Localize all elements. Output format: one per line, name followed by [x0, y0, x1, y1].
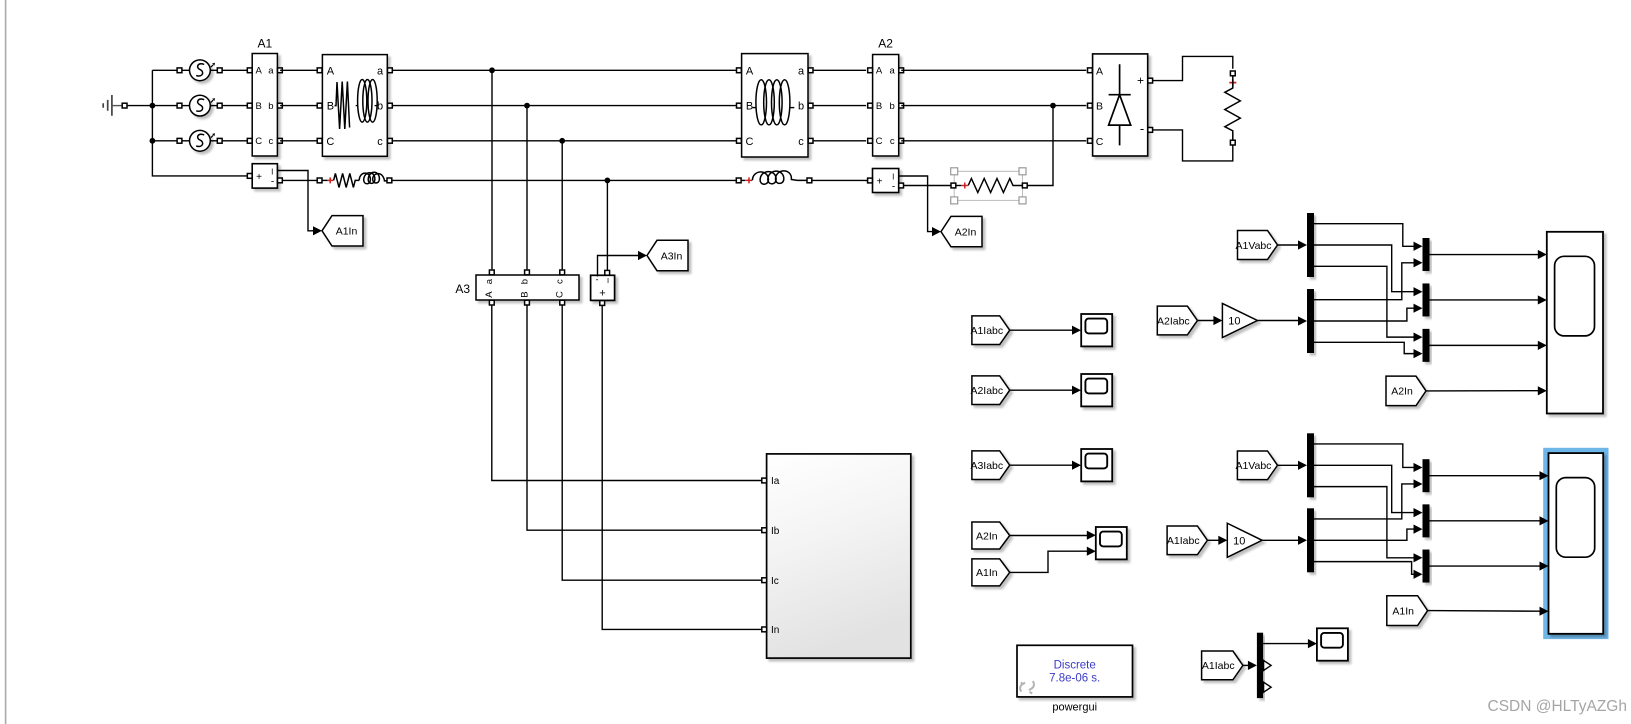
- svg-text:-: -: [271, 177, 274, 188]
- from tag A2Iabc: [972, 376, 1010, 405]
- from tag A1In g2: [1387, 596, 1428, 626]
- wire D1.2 to M2.1: [1314, 245, 1414, 292]
- from tag A2In: [972, 522, 1010, 549]
- svg-text:a: a: [268, 66, 274, 77]
- wire A2In to scope1: [1426, 390, 1538, 392]
- from tag A2Iabc g1: [1157, 306, 1197, 335]
- canvas left border: [5, 0, 7, 724]
- svg-text:c: c: [555, 279, 566, 284]
- wire L1 outputs to A2: [813, 69, 866, 71]
- wire A1Iabc to scope: [1010, 329, 1073, 331]
- wire A1Vabc to demux1: [1278, 244, 1299, 246]
- svg-text:A2Iabc: A2Iabc: [970, 385, 1003, 397]
- selection frame around R2: [954, 171, 1022, 200]
- load resistor Rload: [1230, 71, 1235, 76]
- wire A1Vabc to demux3: [1278, 464, 1299, 466]
- wire A1In to scope S6: [1010, 551, 1087, 572]
- transformer primary winding: [335, 82, 350, 130]
- mux M3: [1423, 329, 1430, 362]
- AC voltage source Vs2: [177, 103, 182, 108]
- svg-text:A1In: A1In: [336, 226, 358, 238]
- node neutral tap: [605, 178, 611, 184]
- wire M4 to scope2: [1430, 475, 1540, 477]
- neutral inductor L2: [736, 178, 741, 183]
- wire transformer.b to series inductor block: [392, 105, 736, 107]
- wire bus to Vs1: [152, 69, 177, 71]
- current measurement I1: [252, 164, 277, 188]
- svg-text:-: -: [1140, 121, 1144, 136]
- scope S3: [1081, 314, 1112, 346]
- wire A3.B to subsystem Ib: [527, 305, 762, 530]
- demux D1: [1307, 213, 1314, 277]
- wire M3 to scope1: [1430, 344, 1539, 346]
- svg-text:A1Iabc: A1Iabc: [970, 325, 1003, 337]
- wire D2.2 to M2.2: [1314, 308, 1414, 321]
- wire L2 to I2: [812, 179, 868, 181]
- svg-text:+: +: [256, 172, 262, 183]
- subsystem load block: [767, 454, 911, 658]
- AC voltage source Vs3: [177, 138, 182, 143]
- current measurement I2: [873, 169, 899, 193]
- mux M1: [1423, 238, 1430, 271]
- wire Vs1 to A1: [222, 69, 247, 71]
- measurement block A3: [476, 275, 579, 300]
- wire I2 to R2: [903, 185, 951, 187]
- demux D3: [1307, 433, 1314, 497]
- transformer secondary winding: [356, 105, 358, 107]
- svg-text:A: A: [256, 66, 263, 77]
- svg-text:A3Iabc: A3Iabc: [970, 460, 1003, 472]
- powergui broken-link icon: [1020, 681, 1034, 693]
- wire Vs2 to A1: [222, 105, 247, 107]
- scope S4: [1081, 374, 1112, 406]
- wire Vs3 to A1: [222, 140, 247, 142]
- selection highlight on Scope2: [1546, 450, 1606, 636]
- node phase-a tap: [489, 67, 495, 73]
- svg-text:-: -: [892, 182, 895, 193]
- wire phase-c down to A3: [561, 141, 563, 270]
- wire D2.3 to M3.2: [1314, 342, 1414, 353]
- L1 coil: [753, 107, 756, 109]
- wire D4.3 to M6.2: [1314, 562, 1414, 575]
- wire M2 to scope1: [1430, 299, 1539, 301]
- svg-text:c: c: [377, 136, 383, 148]
- wire bus to Vs2: [152, 105, 177, 107]
- svg-text:A: A: [1096, 65, 1103, 77]
- wire A2.b to rectifier: [901, 105, 1086, 107]
- svg-text:A1In: A1In: [976, 567, 998, 579]
- svg-text:A1: A1: [257, 37, 272, 51]
- svg-text:Ic: Ic: [771, 576, 779, 587]
- resistor R2: [951, 183, 956, 188]
- svg-text:C: C: [746, 136, 754, 148]
- wire A1.c to transformer: [280, 140, 317, 142]
- svg-text:B: B: [256, 101, 262, 112]
- wire A3.C to subsystem Ic: [562, 305, 762, 580]
- node bus-B junction: [150, 103, 156, 109]
- svg-text:c: c: [269, 136, 274, 147]
- scope S5: [1081, 449, 1112, 481]
- svg-text:C: C: [876, 136, 883, 147]
- three-phase series inductor block L1: [742, 54, 808, 157]
- wire A1Iabc to demux5: [1243, 664, 1249, 666]
- svg-text:A3In: A3In: [661, 250, 683, 262]
- svg-text:I: I: [271, 167, 273, 176]
- svg-text:A2In: A2In: [955, 226, 977, 238]
- wire RL to neutral inductor: [392, 179, 737, 181]
- wire A2.c to rectifier: [901, 140, 1086, 142]
- svg-text:A: A: [876, 66, 883, 77]
- neutral star bus wire: [152, 70, 248, 176]
- svg-text:powergui: powergui: [1052, 702, 1097, 714]
- svg-text:A3: A3: [455, 282, 470, 296]
- svg-text:b: b: [890, 101, 895, 112]
- wire A3.A to subsystem Ia: [492, 305, 762, 481]
- svg-text:b: b: [519, 279, 530, 284]
- svg-text:b: b: [268, 101, 273, 112]
- svg-text:CSDN @HLTyAZGh: CSDN @HLTyAZGh: [1488, 698, 1627, 715]
- unconnected D5.2 output: [1264, 660, 1272, 670]
- wire D5.1 to scope S7: [1263, 643, 1308, 645]
- wire G2 to demux D4: [1262, 539, 1298, 541]
- svg-text:A2Iabc: A2Iabc: [1157, 315, 1190, 327]
- wire I1 signal to A1In: [278, 171, 314, 231]
- scope S7: [1317, 628, 1348, 660]
- svg-text:a: a: [484, 278, 495, 284]
- svg-text:A2In: A2In: [976, 530, 998, 542]
- wire G1 to demux D2: [1257, 320, 1298, 322]
- node rectifier-B junction: [1050, 103, 1056, 109]
- svg-text:7.8e-06 s.: 7.8e-06 s.: [1049, 672, 1100, 684]
- rectifier diode: [1109, 64, 1131, 145]
- wire A2Iabc to gain G1: [1197, 320, 1214, 322]
- scope S6: [1096, 527, 1127, 559]
- svg-text:C: C: [326, 136, 334, 148]
- wire M5 to scope2: [1430, 520, 1540, 522]
- svg-text:+: +: [877, 177, 883, 188]
- wire A3Iabc to scope: [1010, 464, 1073, 466]
- mux M4: [1423, 459, 1430, 492]
- wire I4 to subsystem In: [602, 305, 762, 629]
- svg-text:B: B: [327, 101, 334, 113]
- measurement block A2: [873, 55, 899, 157]
- svg-text:+: +: [1137, 74, 1144, 88]
- wire neutral down to I4: [606, 180, 608, 270]
- from tag A1Vabc: [1238, 231, 1278, 260]
- node phase-c tap: [559, 138, 565, 144]
- from tag A2In g1: [1386, 376, 1426, 406]
- from tag A1In: [972, 559, 1010, 586]
- wire phase-b down to A3: [526, 106, 528, 270]
- wire D1.1 to M1.1: [1314, 224, 1414, 247]
- mux M5: [1423, 504, 1430, 537]
- svg-text:10: 10: [1233, 535, 1245, 547]
- svg-text:A2In: A2In: [1391, 386, 1413, 398]
- demux D2: [1307, 289, 1314, 353]
- wire A1Iabc to gain G2: [1207, 539, 1218, 541]
- from tag A3Iabc: [972, 451, 1010, 480]
- svg-text:C: C: [1096, 136, 1104, 148]
- scope Scope1: [1547, 232, 1603, 414]
- svg-text:B: B: [746, 101, 753, 113]
- svg-text:In: In: [771, 625, 779, 636]
- mux M6: [1423, 550, 1430, 583]
- svg-text:A: A: [484, 291, 495, 298]
- wire load to rectifier -: [1153, 130, 1233, 161]
- goto tag A2In: [941, 216, 982, 246]
- wire D4.2 to M5.2: [1314, 529, 1414, 540]
- scope Scope2: [1549, 453, 1604, 634]
- demux D4: [1307, 508, 1314, 572]
- svg-text:A1Iabc: A1Iabc: [1202, 660, 1235, 672]
- ground: [103, 95, 112, 116]
- wire A1.b to transformer: [280, 105, 317, 107]
- svg-text:+: +: [599, 288, 605, 300]
- wire A1In to scope2: [1428, 610, 1540, 613]
- svg-text:b: b: [798, 101, 804, 113]
- svg-text:10: 10: [1228, 316, 1240, 328]
- demux D5: [1257, 633, 1263, 698]
- svg-text:Ib: Ib: [771, 526, 780, 537]
- svg-text:I: I: [607, 276, 609, 285]
- mux M2: [1423, 283, 1430, 316]
- svg-text:Ia: Ia: [771, 476, 780, 487]
- wire D3.2 to M5.1: [1314, 465, 1414, 512]
- svg-text:C: C: [555, 291, 566, 298]
- wire I1 to RL branch: [282, 179, 317, 181]
- wire phase-a down to A3: [491, 70, 493, 269]
- wire rectifier + to load: [1153, 56, 1233, 80]
- unconnected D5.3 output: [1264, 682, 1272, 692]
- transformer T1: [322, 55, 387, 157]
- series RL branch R1L1: [317, 178, 322, 183]
- svg-text:A1Iabc: A1Iabc: [1167, 535, 1200, 547]
- wire ground to neutral bus: [127, 105, 152, 107]
- goto tag A3In: [647, 240, 688, 270]
- svg-text:Discrete: Discrete: [1054, 659, 1096, 671]
- measurement block A1: [252, 54, 277, 157]
- wire I2 signal to A2In: [899, 176, 933, 232]
- svg-text:c: c: [798, 136, 804, 148]
- svg-text:C: C: [255, 136, 262, 147]
- gain G1: [1222, 303, 1257, 337]
- wire M6 to scope2: [1430, 565, 1540, 567]
- goto tag A1In: [322, 216, 363, 246]
- gain G2: [1227, 523, 1262, 557]
- powergui block: [1017, 645, 1133, 697]
- svg-text:B: B: [1096, 101, 1103, 113]
- wire M1 to scope1: [1430, 254, 1539, 256]
- wire A2In to scope S6: [1010, 535, 1087, 537]
- svg-text:A: A: [746, 65, 754, 77]
- wire R2 to phase B: [1027, 106, 1053, 186]
- from tag A1Iabc g2: [1167, 526, 1207, 555]
- from tag A1Iabc g3: [1202, 651, 1243, 680]
- wire D3.1 to M4.1: [1314, 444, 1414, 467]
- wire transformer.c to series inductor block: [392, 140, 736, 142]
- svg-text:A1Vabc: A1Vabc: [1235, 460, 1271, 472]
- wire D2.1 to M1.2: [1314, 263, 1414, 300]
- wire I4 signal to A3In: [598, 256, 639, 277]
- wire D3.3 to M6.1: [1314, 487, 1414, 558]
- svg-text:I: I: [892, 173, 894, 182]
- from tag A1Iabc: [972, 316, 1010, 345]
- wire D1.3 to M3.1: [1314, 266, 1414, 337]
- wire D4.1 to M4.2: [1314, 484, 1414, 519]
- svg-text:A1In: A1In: [1392, 605, 1414, 617]
- svg-text:B: B: [876, 101, 882, 112]
- wire bus to Vs3: [152, 140, 177, 142]
- svg-text:c: c: [890, 136, 895, 147]
- svg-text:A: A: [327, 65, 335, 77]
- svg-text:A2: A2: [878, 37, 893, 51]
- svg-text:B: B: [519, 291, 530, 297]
- wire transformer.a to series inductor block: [392, 69, 736, 71]
- wire A1.a to transformer: [280, 69, 317, 71]
- rectifier U1: [1093, 54, 1148, 156]
- svg-text:a: a: [377, 65, 384, 77]
- current measurement I4: [591, 275, 615, 300]
- node bus-C junction: [150, 138, 156, 144]
- wire A2Iabc to scope: [1010, 389, 1073, 391]
- svg-text:a: a: [890, 66, 896, 77]
- svg-text:A1Vabc: A1Vabc: [1236, 240, 1272, 252]
- from tag A1Vabc g2: [1237, 451, 1277, 480]
- wire A2.a to rectifier: [901, 69, 1086, 71]
- AC voltage source Vs1: [177, 68, 182, 73]
- svg-text:a: a: [798, 65, 805, 77]
- node phase-b tap: [524, 103, 530, 109]
